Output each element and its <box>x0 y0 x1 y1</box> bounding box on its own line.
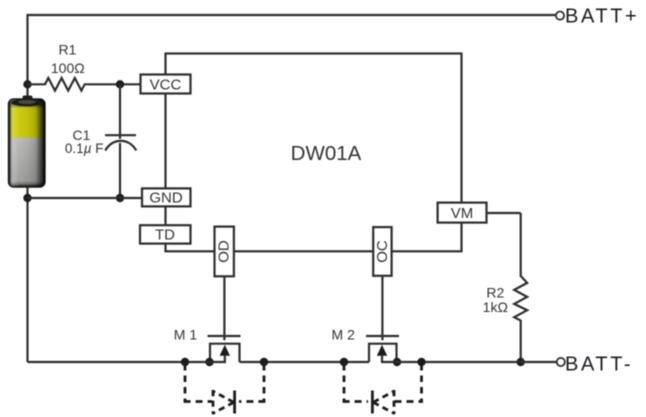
pin OC <box>373 227 391 276</box>
wire OC to M2 gate <box>381 276 383 340</box>
node M2 body-diode right junction <box>417 358 425 366</box>
resistor R2 <box>514 213 527 362</box>
svg-text:100Ω: 100Ω <box>51 60 85 76</box>
node M2 body-diode left junction <box>340 358 348 366</box>
svg-text:M1: M1 <box>174 327 201 343</box>
node M1 body-diode left junction <box>181 358 189 366</box>
node R2 / BATT- rail junction <box>517 358 525 366</box>
transistor M1 <box>208 336 241 362</box>
svg-text:TD: TD <box>155 227 175 244</box>
svg-text:OD: OD <box>216 240 233 263</box>
svg-text:BATT+: BATT+ <box>565 5 639 27</box>
transistor M2 <box>366 336 399 362</box>
terminal BATT+ <box>556 12 564 20</box>
svg-text:GND: GND <box>149 190 183 207</box>
wire bottom rail right segment to BATT- <box>381 361 557 363</box>
diode D2 body diode of M2 (dashed) <box>343 364 423 414</box>
svg-text:BATT-: BATT- <box>565 353 633 375</box>
capacitor C1 <box>105 84 136 198</box>
svg-text:OC: OC <box>374 240 391 263</box>
resistor R1 <box>28 78 141 91</box>
node M1 body-diode right junction <box>260 358 268 366</box>
svg-text:R2: R2 <box>486 284 504 300</box>
node M2 source junction <box>393 358 401 366</box>
pin VCC <box>141 75 191 94</box>
svg-text:0.1µ F: 0.1µ F <box>65 141 104 156</box>
wire left vertical battery to bottom rail <box>26 186 28 362</box>
svg-text:M2: M2 <box>331 327 358 343</box>
op-amp U1 DW01A IC outline <box>166 54 462 252</box>
node R1/C1/VCC junction <box>116 80 124 88</box>
battery cell <box>9 96 45 187</box>
node M1 source junction <box>205 358 213 366</box>
pin GND <box>142 188 191 206</box>
wire bottom rail middle segment <box>240 361 370 363</box>
node battery minus / GND rail junction <box>23 194 31 202</box>
svg-text:VM: VM <box>451 205 474 222</box>
node C1 / GND rail junction <box>116 194 124 202</box>
diode D1 body diode of M1 (dashed) <box>184 364 266 414</box>
wire top rail BATT+ <box>28 15 557 101</box>
terminal BATT- <box>557 358 565 366</box>
svg-text:1kΩ: 1kΩ <box>483 299 508 315</box>
wire VM to R2 <box>487 212 521 214</box>
wire GND rail <box>28 197 143 199</box>
pin TD <box>140 225 191 243</box>
svg-text:R1: R1 <box>59 42 77 58</box>
wire OD to M1 gate <box>223 276 225 340</box>
wire bottom rail left segment <box>28 361 227 363</box>
pin VM <box>438 203 487 223</box>
pin OD <box>215 227 234 277</box>
node battery plus / R1 junction <box>23 80 31 88</box>
svg-text:VCC: VCC <box>150 77 182 94</box>
svg-text:DW01A: DW01A <box>291 142 362 165</box>
